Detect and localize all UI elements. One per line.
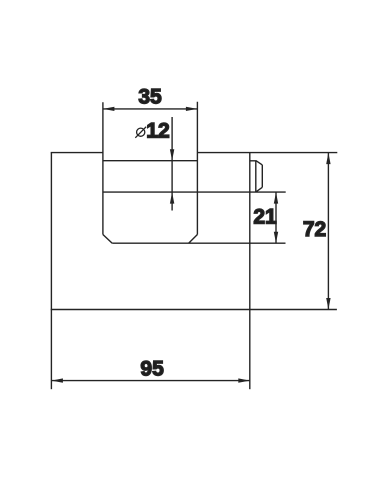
wire: right extension line bbox=[249, 310, 251, 390]
wire: body top edge left segment bbox=[51, 152, 103, 154]
wire: left extension line bbox=[50, 310, 52, 390]
body outline (padlock body 95x72) bbox=[51, 153, 338, 310]
dimension 95 (bottom) bbox=[51, 310, 249, 390]
wire: housing right vertical + 35-dim extension bbox=[196, 102, 198, 235]
wire: tab right edge bbox=[261, 165, 263, 187]
wire: body bottom edge + 72-dim bottom extension bbox=[51, 309, 337, 311]
wire: housing bottom edge + 21-dim lower extension bbox=[112, 242, 285, 244]
wire: housing bottom left chamfer bbox=[103, 235, 112, 244]
wire: body right edge bbox=[249, 153, 251, 310]
svg-text:21: 21 bbox=[253, 205, 277, 228]
dimension diameter 12 bbox=[135, 117, 174, 211]
wire: upper pin line bbox=[103, 160, 197, 162]
wire: body left edge bbox=[50, 153, 52, 310]
diameter symbol bbox=[137, 128, 145, 136]
dimension 21 (right of body) bbox=[253, 192, 278, 243]
wire: lower pin line + 21-dim upper extension bbox=[103, 191, 286, 193]
pin hole lines (diameter 12) bbox=[103, 161, 286, 192]
wire: housing bottom right chamfer bbox=[189, 235, 198, 244]
wire: tab inner vertical bbox=[255, 161, 257, 192]
dimension 72 (far right) bbox=[303, 153, 331, 310]
wire: tab top edge bbox=[250, 161, 262, 165]
svg-text:95: 95 bbox=[140, 357, 164, 380]
dimension 35 (top) bbox=[103, 86, 197, 111]
wire: body top edge right segment + 72-dim top extension bbox=[197, 152, 337, 154]
svg-text:12: 12 bbox=[146, 119, 169, 142]
wire: housing left vertical + 35-dim extension bbox=[102, 102, 104, 234]
svg-text:35: 35 bbox=[138, 86, 162, 109]
boss housing (35 wide) bbox=[103, 102, 286, 243]
wire: tab bottom chamfer bbox=[256, 187, 262, 192]
svg-text:72: 72 bbox=[303, 218, 326, 241]
pin end tab on right face bbox=[250, 161, 262, 192]
